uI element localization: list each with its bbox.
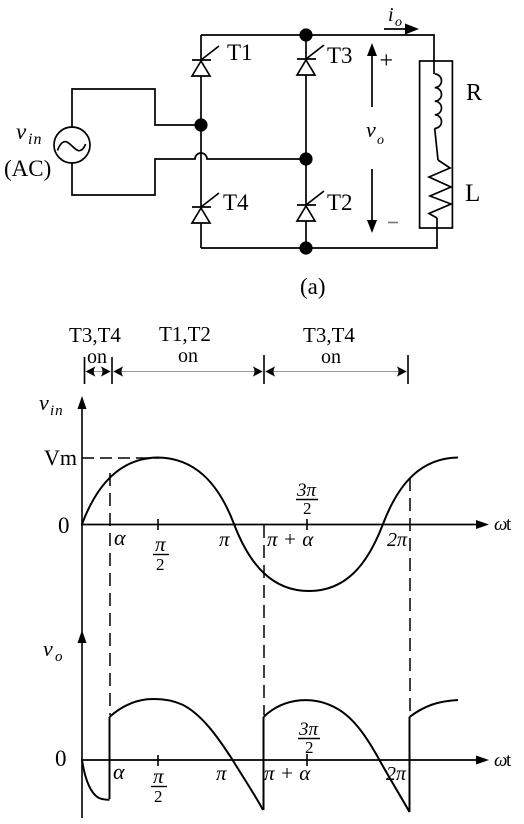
v_o jump at alpha bbox=[109, 717, 111, 799]
AC source V1 bbox=[54, 127, 90, 163]
v_in sine curve bbox=[82, 458, 458, 592]
thyristor T4 bbox=[192, 193, 219, 223]
label T3,T4 on (right) bbox=[303, 323, 355, 368]
svg-text:R: R bbox=[466, 80, 482, 106]
minus sign bbox=[388, 222, 398, 224]
dashed line at 2pi+alpha bbox=[409, 478, 411, 715]
svg-text:ν: ν bbox=[366, 117, 376, 142]
svg-text:i: i bbox=[388, 4, 394, 26]
v_o jump at 2pi+alpha bbox=[409, 717, 411, 812]
svg-text:o: o bbox=[55, 649, 63, 665]
svg-text:v: v bbox=[39, 390, 49, 415]
svg-text:on: on bbox=[87, 346, 107, 368]
v_in y-axis bbox=[78, 396, 87, 632]
v_o arrow down bbox=[367, 169, 377, 233]
tick pi/2 (v_o) bbox=[157, 755, 159, 766]
svg-text:2π: 2π bbox=[386, 763, 407, 785]
svg-text:π + α: π + α bbox=[267, 527, 314, 551]
svg-text:in: in bbox=[50, 403, 64, 419]
label omega-t (v_o) bbox=[494, 750, 512, 771]
label v_o bbox=[366, 117, 384, 148]
svg-text:v: v bbox=[16, 119, 27, 144]
interval arrow T1,T2 on bbox=[113, 366, 263, 376]
v_in x-axis bbox=[81, 520, 489, 529]
interval arrow T3,T4 on (left) bbox=[86, 366, 111, 376]
node: left mid junction bbox=[194, 118, 207, 131]
tick 3pi/2 (v_in) bbox=[306, 519, 308, 530]
svg-text:t: t bbox=[506, 514, 512, 535]
wire right leg bbox=[305, 35, 307, 248]
label 3pi/2 (v_o) bbox=[298, 719, 320, 757]
v_o curve segment 0 (0 to alpha) bbox=[82, 760, 110, 800]
svg-text:Vm: Vm bbox=[44, 445, 77, 470]
node: right top junction bbox=[299, 28, 312, 41]
svg-text:3π: 3π bbox=[296, 480, 317, 501]
label v_o (axis) bbox=[43, 636, 63, 665]
v_o y-axis bbox=[78, 630, 87, 818]
wire coil to resistor bbox=[435, 128, 438, 160]
svg-text:+: + bbox=[380, 48, 394, 74]
svg-text:3π: 3π bbox=[298, 719, 319, 740]
svg-text:π + α: π + α bbox=[264, 761, 311, 785]
svg-text:2π: 2π bbox=[387, 529, 408, 551]
label 3pi/2 (v_in) bbox=[296, 480, 318, 518]
thyristor T2 bbox=[297, 191, 324, 221]
v_o curve segment A (alpha to pi+alpha) bbox=[110, 699, 264, 810]
svg-text:2: 2 bbox=[305, 738, 314, 757]
label T3,T4 on (left) bbox=[69, 323, 121, 368]
svg-text:on: on bbox=[178, 345, 198, 367]
svg-text:T2: T2 bbox=[327, 190, 353, 215]
svg-text:(a): (a) bbox=[300, 274, 326, 299]
svg-text:T1: T1 bbox=[227, 40, 253, 65]
svg-text:o: o bbox=[395, 15, 402, 30]
current arrow i_o bbox=[384, 4, 419, 35]
v_o jump at pi+alpha bbox=[263, 717, 265, 810]
svg-text:π: π bbox=[155, 532, 166, 556]
wire source top to bridge left mid node bbox=[72, 89, 201, 127]
inductor (labelled R) bbox=[435, 74, 442, 128]
svg-text:0: 0 bbox=[55, 746, 67, 771]
interval bar 2 bbox=[111, 357, 113, 384]
label v_in bbox=[16, 119, 42, 148]
svg-text:2: 2 bbox=[154, 787, 163, 806]
label omega-t (v_in) bbox=[494, 514, 512, 535]
dashed line at alpha bbox=[109, 473, 111, 715]
resistor (labelled L) bbox=[429, 160, 451, 218]
label v_in (axis) bbox=[39, 390, 64, 419]
svg-text:2: 2 bbox=[303, 499, 312, 518]
svg-text:T3,T4: T3,T4 bbox=[69, 323, 121, 347]
top rail wire bbox=[201, 35, 434, 74]
bottom rail wire bbox=[201, 218, 437, 248]
v_o arrow up bbox=[367, 43, 377, 107]
svg-text:2: 2 bbox=[156, 555, 165, 574]
v_o x-axis bbox=[81, 756, 489, 765]
node: right bottom junction bbox=[299, 241, 312, 254]
svg-text:π: π bbox=[216, 761, 227, 785]
svg-text:(AC): (AC) bbox=[4, 156, 51, 181]
node: right mid junction bbox=[299, 152, 312, 165]
svg-text:T4: T4 bbox=[223, 190, 249, 215]
svg-text:o: o bbox=[377, 133, 384, 148]
dashed line at pi+alpha bbox=[263, 525, 265, 715]
svg-text:T1,T2: T1,T2 bbox=[159, 322, 211, 346]
v_o curve segment C (tail) bbox=[410, 700, 459, 717]
svg-text:L: L bbox=[465, 180, 480, 207]
thyristor T1 bbox=[192, 46, 219, 76]
interval bar 1 bbox=[84, 357, 86, 384]
wire source bottom to bridge right mid node (with hop) bbox=[72, 153, 306, 195]
svg-text:in: in bbox=[28, 131, 42, 148]
tick 3pi/2 (v_o) bbox=[306, 754, 308, 766]
svg-text:α: α bbox=[114, 525, 126, 550]
Vm dashed line bbox=[82, 457, 159, 459]
label pi/2 (v_o) bbox=[151, 764, 167, 806]
load box bbox=[420, 61, 453, 228]
thyristor T3 bbox=[297, 45, 324, 75]
v_o curve segment B (pi+alpha to 2pi+alpha) bbox=[264, 700, 410, 812]
wire left leg bbox=[200, 35, 202, 248]
svg-text:π: π bbox=[219, 527, 230, 551]
interval bar 4 bbox=[407, 355, 409, 384]
svg-text:π: π bbox=[153, 764, 164, 788]
svg-text:v: v bbox=[43, 636, 53, 661]
svg-text:T3: T3 bbox=[327, 43, 353, 68]
svg-text:t: t bbox=[506, 750, 512, 771]
svg-text:T3,T4: T3,T4 bbox=[303, 323, 355, 347]
label pi/2 (v_in) bbox=[153, 532, 169, 574]
interval bar 3 bbox=[263, 355, 265, 384]
tick pi/2 (v_in) bbox=[157, 519, 159, 530]
interval arrow T3,T4 on (right) bbox=[265, 366, 407, 376]
svg-text:on: on bbox=[321, 346, 341, 368]
svg-text:α: α bbox=[113, 759, 125, 784]
label T1,T2 on bbox=[159, 322, 211, 367]
svg-text:0: 0 bbox=[58, 513, 70, 538]
